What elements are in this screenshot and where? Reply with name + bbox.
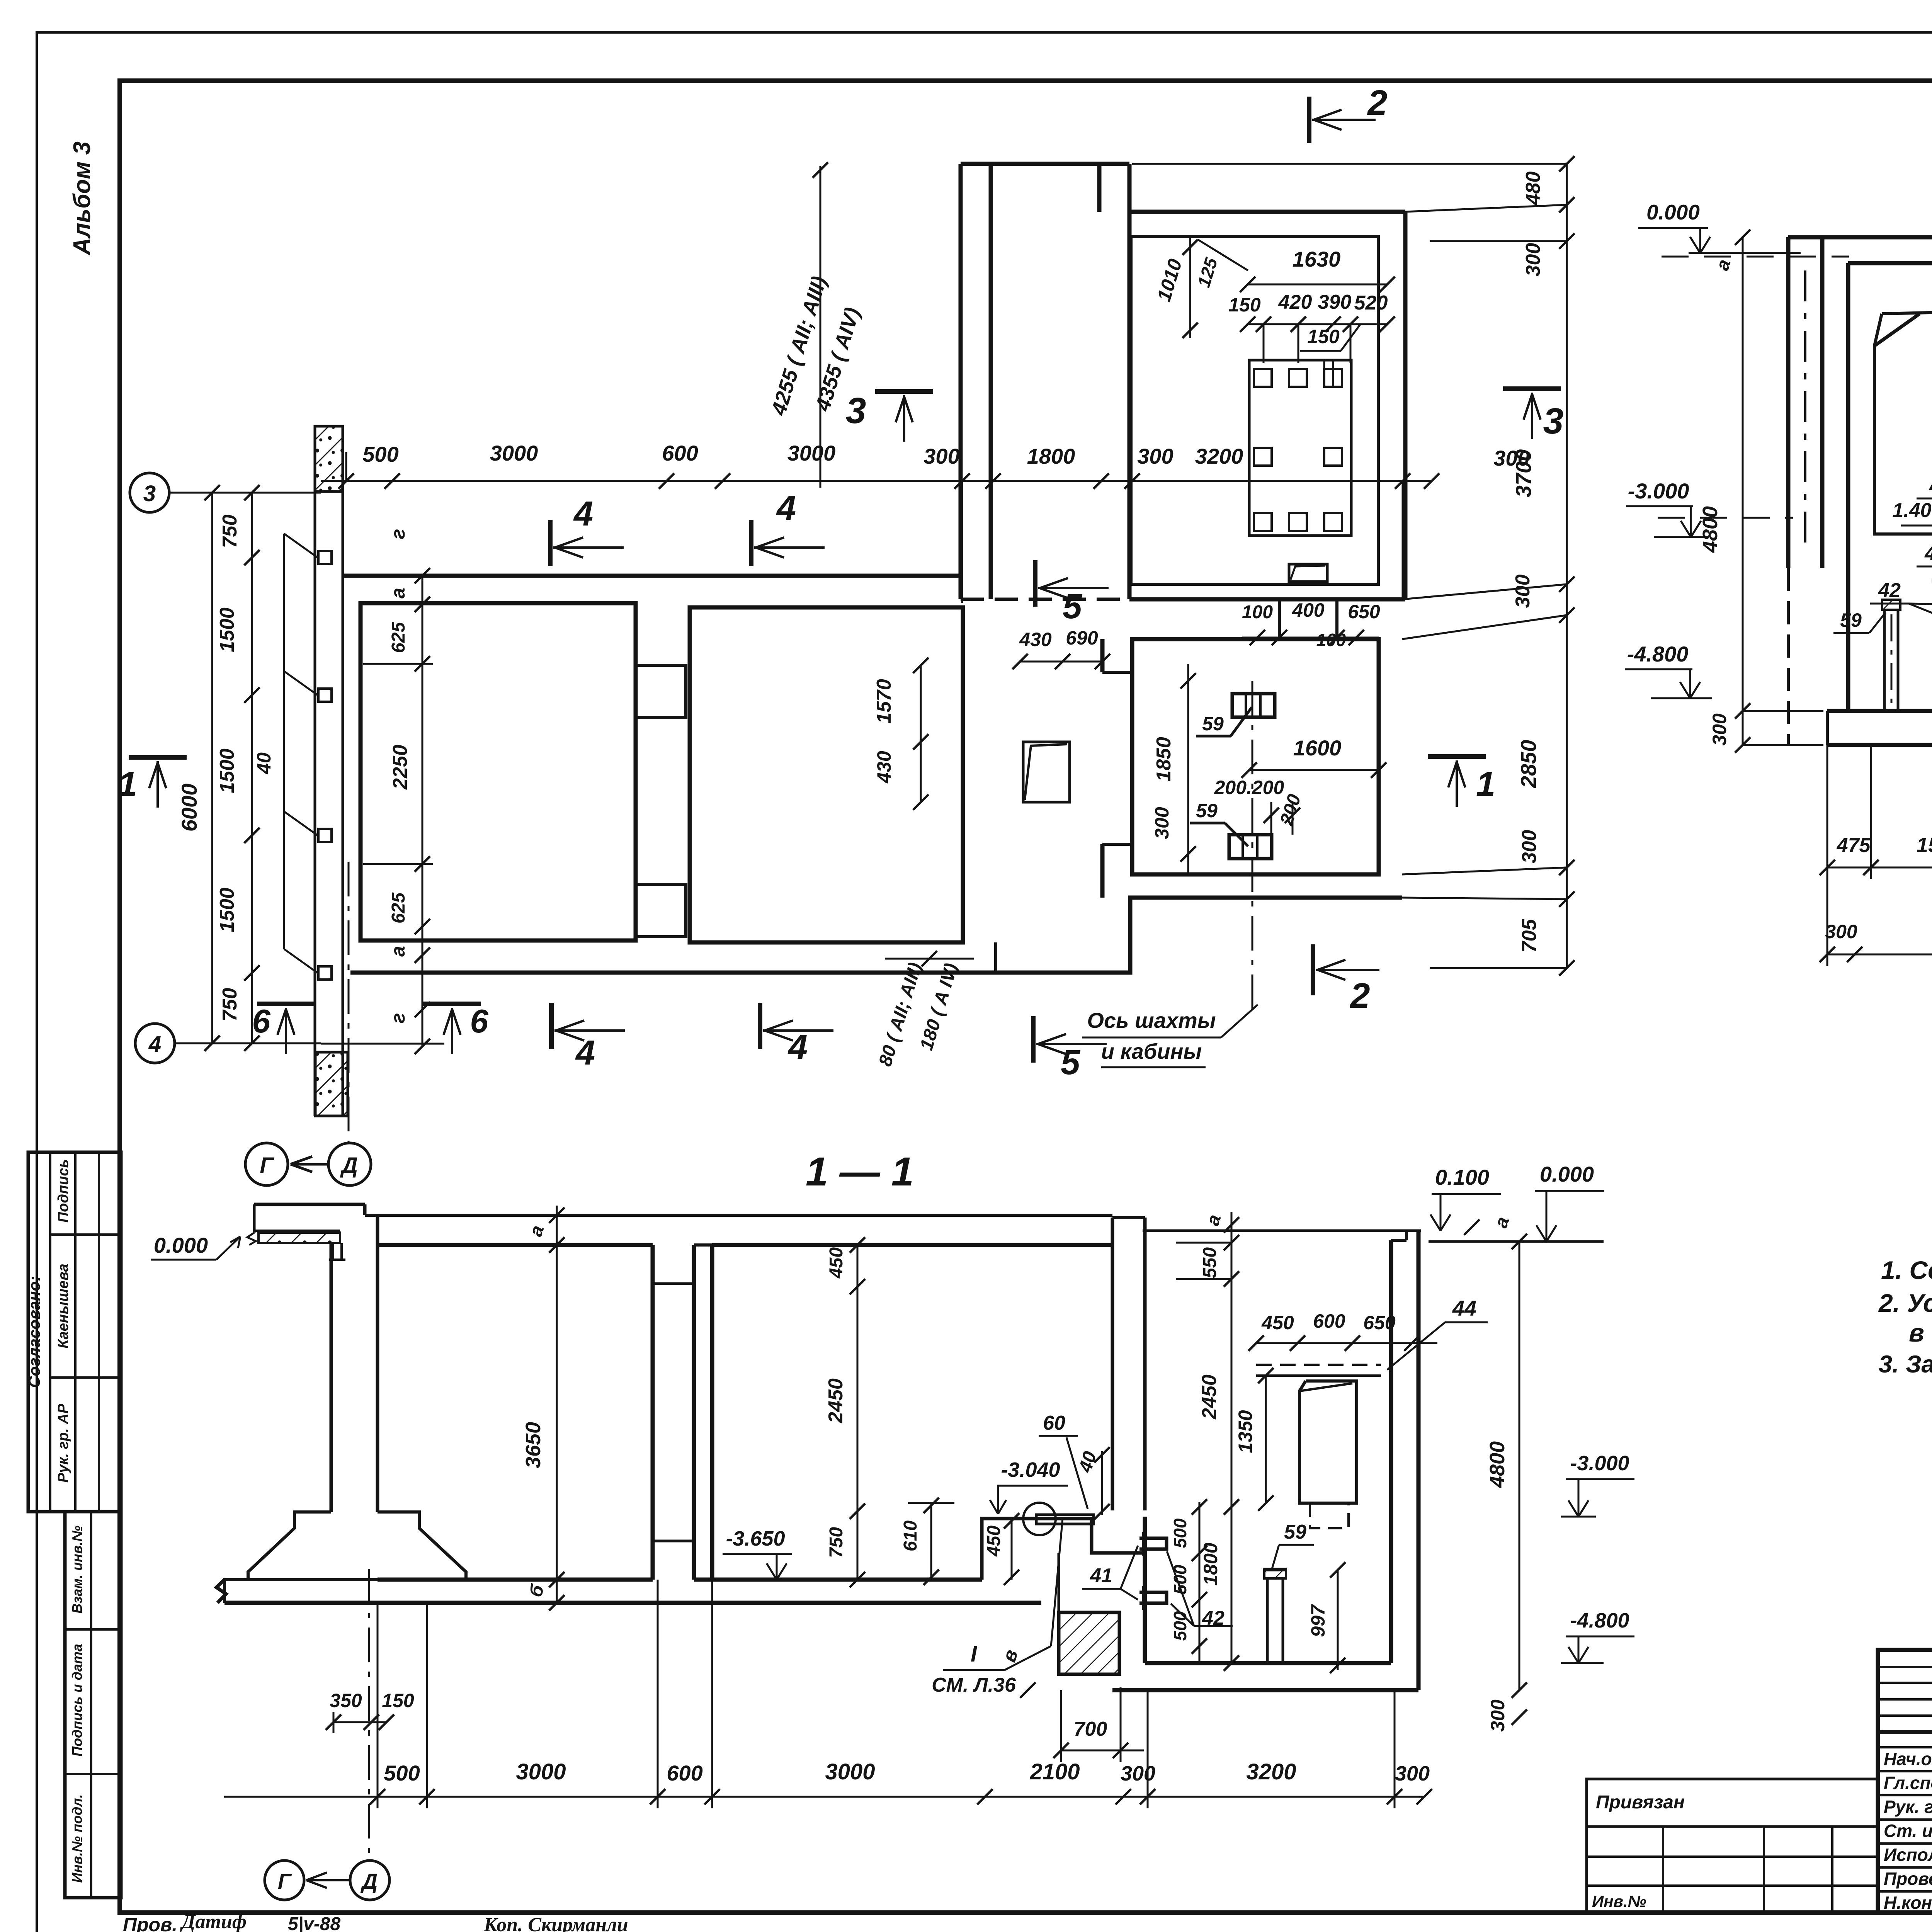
- svg-text:Подпись: Подпись: [55, 1159, 71, 1223]
- svg-text:Н.контр.: Н.контр.: [1884, 1893, 1932, 1913]
- s11 left foundation: [224, 1512, 331, 1603]
- svg-text:Д: Д: [361, 1869, 378, 1893]
- title block outer: [1878, 1650, 1932, 1913]
- plan pit anchor box 1: [1232, 694, 1275, 717]
- s22 dim 4800 left: [1742, 237, 1744, 745]
- plan right extension lines: [1405, 205, 1567, 212]
- svg-text:4: 4: [776, 489, 796, 527]
- s11 bottom dims row1: [333, 1721, 386, 1723]
- svg-text:400: 400: [1292, 599, 1325, 621]
- s11 ground line right: [1429, 1240, 1604, 1243]
- svg-text:60: 60: [1043, 1412, 1065, 1434]
- s11 dim 2450 550 pitcol: [1231, 1212, 1233, 1663]
- svg-text:а: а: [387, 588, 409, 599]
- svg-text:300: 300: [1709, 713, 1730, 746]
- plan anchor leaders: [284, 534, 318, 558]
- svg-text:4: 4: [148, 1032, 161, 1057]
- s11 pedestal step: [982, 1519, 1145, 1580]
- svg-text:и кабины: и кабины: [1101, 1039, 1202, 1063]
- title block staff grid: [1878, 1746, 1932, 1748]
- svg-text:0.000: 0.000: [154, 1233, 208, 1257]
- plan left dim line segments: [251, 493, 253, 1043]
- svg-text:59: 59: [1284, 1521, 1306, 1543]
- svg-text:г: г: [387, 1013, 409, 1024]
- svg-text:750: 750: [219, 515, 241, 548]
- svg-text:-4.800: -4.800: [1570, 1609, 1629, 1632]
- svg-text:3: 3: [1543, 401, 1564, 442]
- svg-text:300: 300: [923, 444, 959, 468]
- s11 dim 1350: [1265, 1376, 1267, 1503]
- svg-text:Провер.: Провер.: [1884, 1869, 1932, 1889]
- plan axis circles G D: [245, 1143, 288, 1185]
- svg-text:4800: 4800: [1699, 506, 1722, 553]
- plan left wall pilaster bottom: [315, 1052, 348, 1116]
- svg-text:1: 1: [118, 765, 137, 804]
- svg-text:40: 40: [253, 752, 275, 774]
- plan left wall pilaster top: [315, 426, 343, 492]
- svg-text:Взам. инв.№: Взам. инв.№: [69, 1526, 85, 1614]
- svg-text:1800: 1800: [1200, 1543, 1221, 1585]
- left stamp block inventory: [65, 1512, 121, 1898]
- plan right dim line: [1566, 164, 1568, 968]
- left stamp block Согласовано: [28, 1152, 121, 1512]
- svg-text:Согласовано:: Согласовано:: [25, 1276, 43, 1388]
- svg-text:Инв.№ подл.: Инв.№ подл.: [69, 1794, 85, 1883]
- svg-text:5|v-88: 5|v-88: [288, 1914, 341, 1932]
- svg-text:44: 44: [1452, 1296, 1476, 1320]
- title block small grid: [1878, 1666, 1932, 1668]
- svg-text:625: 625: [388, 892, 409, 923]
- svg-text:6: 6: [252, 1003, 270, 1040]
- svg-text:А: А: [1929, 471, 1932, 495]
- svg-text:3650: 3650: [522, 1422, 545, 1468]
- plan top wall: [343, 574, 963, 578]
- svg-text:2: 2: [1349, 976, 1370, 1015]
- svg-text:475: 475: [1837, 834, 1871, 857]
- svg-text:-4.800: -4.800: [1627, 642, 1689, 666]
- svg-text:300: 300: [1137, 444, 1173, 468]
- svg-text:Инв.№: Инв.№: [1592, 1892, 1646, 1910]
- plan door opening symbol: [1023, 742, 1070, 802]
- svg-text:500: 500: [1170, 1518, 1190, 1548]
- svg-text:650: 650: [1363, 1312, 1396, 1333]
- plan extension lines top row: [345, 452, 347, 481]
- svg-text:4: 4: [573, 495, 593, 533]
- s11 room1: [378, 1243, 653, 1247]
- svg-text:500: 500: [1170, 1611, 1190, 1641]
- svg-text:600: 600: [662, 441, 698, 465]
- svg-text:550: 550: [1200, 1247, 1220, 1278]
- s22 left wall: [1786, 237, 1791, 568]
- plan left dim line 6000: [211, 493, 213, 1043]
- svg-text:650: 650: [1348, 601, 1380, 622]
- svg-text:300: 300: [1395, 1762, 1430, 1785]
- plan section mark 3 right: [1503, 386, 1561, 391]
- svg-text:г: г: [387, 529, 409, 539]
- svg-text:3200: 3200: [1246, 1759, 1296, 1784]
- svg-text:625: 625: [388, 622, 409, 653]
- plan machine room dims: [1248, 284, 1387, 286]
- svg-text:2: 2: [1367, 83, 1387, 122]
- svg-text:0.100: 0.100: [1435, 1165, 1489, 1189]
- svg-text:997: 997: [1307, 1604, 1329, 1637]
- svg-text:1630: 1630: [1293, 247, 1341, 271]
- s11 left wall: [330, 1243, 333, 1512]
- svg-text:-3.000: -3.000: [1570, 1452, 1629, 1475]
- svg-text:200.200: 200.200: [1214, 777, 1284, 798]
- svg-text:610: 610: [900, 1520, 921, 1551]
- s11 room2: [712, 1243, 1112, 1247]
- s11 formwork dims 450 600 650: [1256, 1342, 1437, 1344]
- svg-text:600: 600: [1313, 1310, 1345, 1332]
- svg-text:2. Установка закладных деталей: 2. Установка закладных деталей и устройс…: [1878, 1289, 1932, 1317]
- svg-text:59: 59: [1202, 713, 1224, 735]
- svg-text:1800: 1800: [1027, 444, 1075, 468]
- svg-text:350: 350: [330, 1690, 362, 1711]
- plan inner left dim line: [422, 576, 423, 1046]
- svg-text:150: 150: [1228, 294, 1261, 316]
- s22 left pit inner wall: [1846, 263, 1850, 711]
- plan section mark 3 left: [875, 389, 933, 394]
- svg-text:41: 41: [1090, 1565, 1112, 1587]
- svg-text:2850: 2850: [1516, 740, 1541, 789]
- plan room A: [361, 603, 636, 940]
- svg-text:3200: 3200: [1195, 444, 1243, 468]
- svg-text:1: 1: [1476, 765, 1495, 804]
- svg-text:1570: 1570: [873, 679, 895, 724]
- svg-text:5: 5: [1063, 587, 1083, 626]
- svg-text:-3.000: -3.000: [1628, 479, 1689, 503]
- svg-text:4800: 4800: [1486, 1441, 1509, 1488]
- s11 middle wall: [1111, 1218, 1114, 1510]
- svg-text:150: 150: [1307, 326, 1340, 347]
- svg-text:Коп. Скирманли: Коп. Скирманли: [483, 1914, 628, 1932]
- svg-text:0.000: 0.000: [1646, 200, 1700, 224]
- plan section mark 1 left: [129, 755, 187, 760]
- svg-text:42: 42: [1878, 579, 1901, 602]
- plan left axis wall: [314, 426, 316, 1116]
- svg-text:Датиф: Датиф: [180, 1911, 247, 1932]
- svg-text:520: 520: [1354, 292, 1388, 314]
- s22 left pit posts: [1882, 600, 1900, 610]
- plan section mark 2 top: [1307, 97, 1311, 143]
- svg-text:6: 6: [470, 1003, 488, 1040]
- plan room B bottom step: [994, 942, 997, 973]
- svg-text:3700: 3700: [1511, 449, 1536, 498]
- s22 top line: [1788, 235, 1932, 240]
- svg-text:3: 3: [846, 390, 866, 431]
- svg-text:Д: Д: [340, 1153, 358, 1178]
- plan left axis circles: [130, 473, 169, 512]
- svg-text:3. Закладные детали учтены в: 3. Закладные детали учтены в спецификаци…: [1879, 1351, 1932, 1378]
- svg-text:480: 480: [1522, 172, 1544, 206]
- svg-text:2100: 2100: [1029, 1759, 1080, 1784]
- plan corridor dims: [1020, 661, 1102, 663]
- svg-text:Г: Г: [278, 1869, 292, 1893]
- svg-text:3: 3: [143, 481, 156, 506]
- left attachment table: [1587, 1779, 1878, 1913]
- plan wall centerline: [348, 862, 350, 1142]
- svg-text:Гл.спец.: Гл.спец.: [1884, 1773, 1932, 1793]
- svg-text:600: 600: [667, 1761, 702, 1785]
- s11 dim 610: [930, 1503, 932, 1580]
- plan section mark 2 bottom: [1311, 944, 1315, 995]
- svg-text:3000: 3000: [825, 1759, 875, 1784]
- s11 formwork panel: [1299, 1381, 1357, 1503]
- svg-text:-3.040: -3.040: [1001, 1458, 1060, 1481]
- svg-text:100: 100: [1316, 630, 1346, 650]
- svg-text:420: 420: [1278, 291, 1312, 313]
- svg-text:1. Сечения 3-3÷6-6 разработа: 1. Сечения 3-3÷6-6 разработаны на листе …: [1881, 1256, 1932, 1284]
- s22 dashed level lines: [1662, 256, 1849, 258]
- plan wall stub top: [636, 665, 686, 718]
- plan machine room outer: [1129, 210, 1405, 214]
- plan section marks 4: [548, 520, 553, 566]
- s11 dim 700: [1061, 1750, 1144, 1752]
- plan pit anchor box 2: [1229, 835, 1272, 859]
- svg-text:Привязан: Привязан: [1596, 1792, 1685, 1813]
- s11 bracket 41 b: [1139, 1592, 1167, 1603]
- s11 floor line: [224, 1601, 1041, 1605]
- svg-text:750: 750: [219, 988, 241, 1022]
- svg-text:-3.650: -3.650: [726, 1527, 785, 1550]
- svg-text:705: 705: [1518, 919, 1541, 953]
- plan section marks 5: [1033, 560, 1037, 607]
- s11 dim 500x3 1800: [1199, 1502, 1201, 1663]
- svg-text:а: а: [387, 946, 409, 957]
- svg-text:3000: 3000: [516, 1759, 566, 1784]
- s11 dim 3650: [556, 1206, 558, 1603]
- svg-text:1350: 1350: [1235, 1410, 1256, 1453]
- s11 extension lines bottom: [377, 1603, 379, 1808]
- svg-text:2250: 2250: [389, 745, 412, 790]
- svg-text:1.400-15: 1.400-15: [1892, 499, 1932, 522]
- plan wall anchor plates: [318, 551, 332, 564]
- svg-text:Рук. гр. АР: Рук. гр. АР: [55, 1403, 71, 1483]
- svg-text:450: 450: [1261, 1312, 1294, 1333]
- svg-text:СМ. Л.36: СМ. Л.36: [932, 1674, 1016, 1696]
- svg-text:Альбом 3: Альбом 3: [69, 141, 95, 256]
- plan section marks 6: [257, 1002, 315, 1006]
- plan equipment frame: [1249, 360, 1351, 536]
- s11 dim 997: [1337, 1570, 1339, 1670]
- svg-text:450: 450: [984, 1526, 1004, 1557]
- svg-text:430: 430: [873, 751, 895, 784]
- svg-text:690: 690: [1066, 627, 1098, 649]
- svg-text:4: 4: [575, 1034, 595, 1072]
- svg-text:59: 59: [1840, 609, 1862, 631]
- svg-text:Каенышева: Каенышева: [55, 1264, 71, 1349]
- svg-text:1600: 1600: [1293, 736, 1342, 760]
- svg-text:430: 430: [1019, 629, 1052, 650]
- s11 post with cap: [1264, 1568, 1287, 1571]
- svg-text:4: 4: [787, 1028, 808, 1066]
- plan bottom wall: [350, 898, 1402, 973]
- s11 wood strip 44: [1256, 1364, 1381, 1366]
- svg-text:2450: 2450: [825, 1378, 847, 1423]
- plan machine room inner: [1131, 236, 1378, 584]
- plan pit room walls: [1100, 639, 1105, 672]
- svg-text:Рук. гр.: Рук. гр.: [1884, 1797, 1932, 1817]
- svg-text:300: 300: [1512, 575, 1534, 608]
- svg-text:1500: 1500: [216, 888, 238, 932]
- svg-text:5: 5: [1061, 1043, 1081, 1082]
- svg-text:450: 450: [826, 1247, 847, 1279]
- svg-text:Подпись и дата: Подпись и дата: [69, 1644, 85, 1757]
- svg-text:Исполн.: Исполн.: [1884, 1845, 1932, 1865]
- svg-text:3000: 3000: [490, 441, 538, 465]
- svg-text:300: 300: [1487, 1699, 1509, 1732]
- svg-text:Ст. инж.: Ст. инж.: [1884, 1821, 1932, 1841]
- svg-text:390: 390: [1318, 291, 1352, 313]
- s11 parapet left: [254, 1203, 365, 1206]
- svg-text:300: 300: [1151, 807, 1173, 839]
- s11 bracket 41 a: [1139, 1538, 1167, 1549]
- plan top dimension row: [321, 480, 1432, 482]
- svg-text:300: 300: [1518, 830, 1541, 864]
- svg-text:59: 59: [1196, 800, 1218, 821]
- plan section mark 1 right: [1428, 754, 1486, 759]
- svg-text:2450: 2450: [1198, 1374, 1221, 1420]
- s11 hatched beam block: [1059, 1612, 1119, 1674]
- svg-text:Нач.отд.: Нач.отд.: [1884, 1749, 1932, 1769]
- plan door symbol small: [1289, 564, 1327, 582]
- s11 axis G D: [265, 1861, 304, 1900]
- svg-text:750: 750: [826, 1527, 847, 1558]
- svg-text:3000: 3000: [787, 441, 836, 465]
- svg-text:Г: Г: [260, 1153, 274, 1178]
- plan room B: [690, 607, 963, 942]
- plan opening dims: [1242, 637, 1379, 639]
- svg-text:500: 500: [362, 442, 398, 466]
- svg-text:300: 300: [1121, 1762, 1155, 1785]
- svg-text:6000: 6000: [177, 784, 201, 832]
- svg-text:100: 100: [1242, 602, 1273, 622]
- s22 panel in left pit: [1874, 310, 1932, 534]
- svg-text:1500: 1500: [1917, 833, 1932, 857]
- s11 bottom main dim row: [224, 1796, 1424, 1798]
- svg-text:500: 500: [1170, 1565, 1190, 1594]
- svg-text:Ось шахты: Ось шахты: [1087, 1008, 1216, 1032]
- svg-text:700: 700: [1074, 1718, 1107, 1740]
- s11 corner detail circle: [1036, 1515, 1094, 1524]
- svg-text:300: 300: [1825, 921, 1857, 942]
- svg-text:I: I: [971, 1641, 978, 1667]
- svg-text:Пров.: Пров.: [123, 1914, 177, 1932]
- svg-text:в шахте лифта даны в альбоме: в шахте лифта даны в альбоме 2.: [1909, 1318, 1932, 1347]
- svg-text:41: 41: [1924, 543, 1932, 565]
- svg-text:1500: 1500: [216, 748, 238, 793]
- svg-text:0.000: 0.000: [1540, 1162, 1594, 1186]
- s22 bottom main dims: [1827, 954, 1932, 956]
- svg-text:150: 150: [382, 1690, 414, 1711]
- s22 left pit floor: [1827, 709, 1932, 713]
- svg-text:300: 300: [1522, 243, 1544, 277]
- s11 dim 2450 450 750 room2col: [857, 1245, 859, 1580]
- svg-text:1850: 1850: [1153, 737, 1175, 782]
- plan shaft centerline: [1252, 681, 1253, 1012]
- plan wall stub bottom: [636, 884, 686, 937]
- s11 pit walls: [1143, 1230, 1421, 1232]
- s11 dim 4800: [1519, 1242, 1520, 1690]
- plan equipment pads: [1254, 369, 1272, 387]
- plan pit room dims: [1249, 769, 1379, 771]
- plan hidden edge dashed: [961, 598, 1129, 601]
- svg-text:500: 500: [384, 1761, 420, 1785]
- s11 top ceiling line: [365, 1214, 1112, 1217]
- svg-text:1500: 1500: [216, 607, 238, 652]
- svg-text:1 — 1: 1 — 1: [806, 1149, 914, 1194]
- s22 bottom dims row1: [1827, 867, 1932, 869]
- plan shaft extension walls: [959, 164, 963, 599]
